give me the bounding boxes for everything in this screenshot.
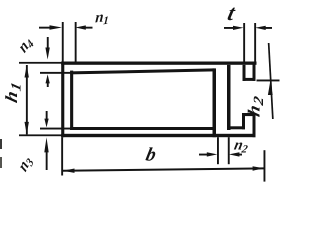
extension line bottom inner left [40,128,71,130]
extension line top inner left [40,72,71,74]
label b [144,145,158,166]
dimension t left arrow [224,26,244,30]
profile bottom wall inner line right segment [227,126,245,129]
dimension b right arrow [253,166,265,170]
dimension n4 upper arrow [45,37,49,60]
dimension t extension line right [254,23,256,62]
profile top wall inner line [70,68,214,74]
dimension n3 lower arrow [44,137,48,170]
profile bottom hook left leg [242,113,245,129]
dimension n2 left arrow [199,152,217,156]
dimension n4 lower arrow [46,74,50,87]
dimension n1 extension line outer [62,22,64,62]
scan smudge left edge lower [0,157,2,168]
dimension n1 extension line inner [75,22,77,62]
dimension b line [63,167,264,171]
label n2 [232,137,250,156]
dimension n1 left arrow [39,25,62,29]
extension line top outer left [19,62,62,64]
dimension h1 arrow down [25,122,29,134]
profile bottom wall outer line [61,134,255,137]
profile top slot lip bottom line [243,78,256,81]
dimension h1 arrow up [25,65,29,78]
profile web wall B [227,65,231,130]
profile left wall outer line [61,62,64,138]
dimension t right arrow [255,26,272,30]
dimension n2 extension line right [228,137,230,164]
dimension b extension line right [264,150,266,181]
dimension n3 upper arrow [44,111,48,127]
label h2 [245,93,267,119]
profile top slot left web [243,65,246,81]
dimension h2 line [268,43,274,119]
dimension h2 arrow up [268,82,273,96]
profile web wall A [213,68,217,137]
label n3 [15,152,36,177]
label n4 [15,32,36,58]
profile right wall upper piece [253,62,256,81]
label h1 [2,79,24,105]
dimension b left arrow [63,169,75,173]
dimension t extension line left [243,23,245,62]
profile top wall outer line [61,62,256,65]
label t [225,0,238,25]
profile left wall inner line [70,71,73,130]
label n1 [95,7,110,28]
dimension n1 right arrow [75,25,92,29]
scan smudge left edge upper [0,139,2,149]
profile bottom wall inner line left segment [70,127,214,130]
dimension n2 extension line left [217,137,219,164]
extension line bottom outer left [19,134,62,136]
dimension h2 extension line [257,80,280,82]
profile bottom hook cap [242,113,256,116]
dimension b extension line left [61,137,63,175]
dimension n2 right arrow [229,152,242,156]
dimension h1 line [26,65,28,134]
profile right wall lower piece [253,113,256,137]
